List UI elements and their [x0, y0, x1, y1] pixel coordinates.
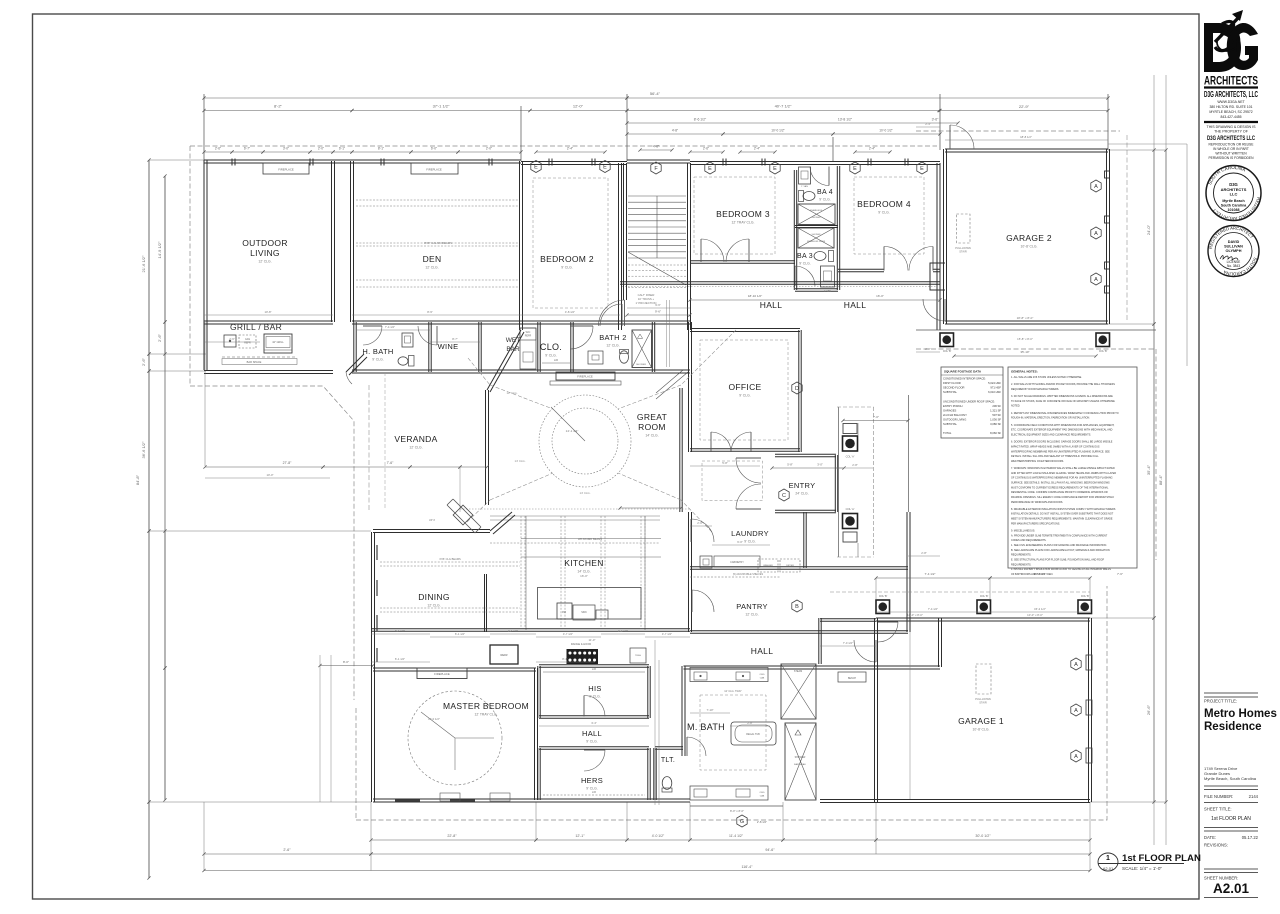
svg-text:ROUGH-IN, MATERIAL ERECTION, F: ROUGH-IN, MATERIAL ERECTION, FABRICATION…: [1011, 417, 1090, 420]
svg-text:D3G ARCHITECTS LLC: D3G ARCHITECTS LLC: [1207, 135, 1255, 142]
svg-text:A2.01: A2.01: [1213, 881, 1250, 896]
svg-text:REQUIRED BY DOOR MANUFACTURER: REQUIRED BY DOOR MANUFACTURERS.: [1011, 388, 1059, 391]
svg-text:SINK: SINK: [581, 611, 587, 614]
svg-text:4. REPORT ANY DIMENSIONAL DISC: 4. REPORT ANY DIMENSIONAL DISCREPANCIES …: [1011, 412, 1119, 415]
BA3 toilet: [814, 252, 826, 261]
kitchen island: [538, 588, 642, 620]
svg-text:6'-0": 6'-0": [431, 147, 437, 151]
svg-text:26'-6": 26'-6": [1146, 704, 1151, 715]
svg-text:5,024 HSF: 5,024 HSF: [988, 381, 1001, 385]
svg-text:COL 'B': COL 'B': [1099, 350, 1108, 353]
svg-text:9' CLG.: 9' CLG.: [819, 198, 830, 202]
roof overhang dashed outline upper left: [190, 131, 1156, 820]
svg-text:3,080 SF: 3,080 SF: [990, 422, 1001, 426]
svg-text:2'-0": 2'-0": [318, 147, 324, 151]
svg-text:37'-1 1/2": 37'-1 1/2": [433, 104, 450, 109]
garage1 porch dimension: [876, 577, 990, 579]
svg-text:UP 4': UP 4': [429, 518, 436, 522]
svg-text:4'-6": 4'-6": [653, 145, 659, 149]
svg-text:SHOWER: SHOWER: [812, 234, 822, 236]
svg-text:F. INSTALL R19 BATT INSULAT: F. INSTALL R19 BATT INSULATION FROM FLOO…: [1011, 568, 1111, 571]
garage1 attic stair: [976, 664, 991, 694]
his closet walls: [538, 666, 540, 718]
great room ceiling diagonals: [467, 330, 736, 532]
garage2 porch door: [923, 299, 945, 321]
garage2 A markers: [1091, 180, 1101, 192]
svg-text:SUBTOTAL: SUBTOTAL: [943, 422, 957, 426]
svg-text:PROJECT TITLE:: PROJECT TITLE:: [1204, 699, 1237, 704]
svg-text:D: D: [795, 386, 799, 392]
mbath vanities top: [690, 668, 768, 682]
master bedroom walls: [372, 668, 375, 802]
great room walls west: [486, 390, 489, 505]
garage1 porch edge: [830, 591, 1090, 593]
fireplace outdoor living: [263, 163, 309, 174]
svg-text:E: E: [534, 165, 538, 171]
svg-text:IN WHOLE OR IN PART: IN WHOLE OR IN PART: [1213, 147, 1249, 151]
svg-text:WEATHERSTRIPPING ON EXTERIOR D: WEATHERSTRIPPING ON EXTERIOR DOORS.: [1011, 460, 1064, 463]
svg-text:FRAMING OPENINGS. SILL ENERGY: FRAMING OPENINGS. SILL ENERGY CODE COMPL…: [1011, 496, 1114, 499]
office walls: [689, 327, 692, 452]
svg-text:A: A: [1074, 662, 1078, 668]
BA3 door: [795, 266, 815, 286]
svg-text:LAUNDRY: LAUNDRY: [731, 529, 769, 538]
svg-text:8'-7": 8'-7": [452, 337, 458, 341]
office double doors: [711, 432, 731, 452]
title block file number: [1204, 785, 1258, 787]
svg-text:E: E: [708, 166, 712, 172]
svg-text:FIREPLACE: FIREPLACE: [278, 168, 294, 172]
svg-text:ROOM: ROOM: [638, 422, 666, 432]
svg-text:2'-0": 2'-0": [697, 521, 703, 525]
svg-text:OFFICE: OFFICE: [729, 382, 762, 392]
svg-text:L/R: L/R: [592, 668, 596, 671]
svg-text:9' CLG.: 9' CLG.: [799, 262, 810, 266]
mbath door: [687, 737, 706, 756]
svg-text:12' CLG.: 12' CLG.: [507, 391, 518, 395]
svg-text:TRSH: TRSH: [635, 655, 641, 657]
svg-text:PULL-DOWN: PULL-DOWN: [955, 246, 971, 250]
svg-text:3'-0": 3'-0": [817, 463, 823, 467]
svg-text:E: E: [920, 166, 924, 172]
svg-text:ELECTRICAL EQUIPMENT SIZES AND: ELECTRICAL EQUIPMENT SIZES AND CLEARANCE…: [1011, 433, 1091, 436]
wine door: [418, 326, 437, 345]
mbath vanities bottom: [690, 786, 768, 800]
svg-text:G: G: [740, 819, 744, 825]
svg-text:18'-8" x 8'-0": 18'-8" x 8'-0": [1017, 316, 1034, 320]
garage1 porch columns: [876, 600, 890, 614]
entry porch columns: [843, 424, 857, 434]
svg-text:OF CONTINUOUS WATERPROOFING ME: OF CONTINUOUS WATERPROOFING MEMBRANE FOR…: [1011, 477, 1113, 480]
garage2 walls: [945, 149, 1108, 152]
BA4 door: [810, 167, 829, 186]
svg-text:REGAL TUB: REGAL TUB: [746, 733, 760, 736]
svg-text:FIRST FLOOR: FIRST FLOOR: [943, 381, 961, 385]
garage1 walls: [876, 618, 1090, 621]
svg-text:PERMISSION IS FORBIDDEN: PERMISSION IS FORBIDDEN: [1208, 156, 1254, 160]
svg-text:E: E: [853, 166, 857, 172]
hall lower walls: [820, 619, 876, 622]
kitchen ceiling beam grid: [490, 516, 660, 628]
master fireplace: [417, 668, 467, 679]
svg-text:HALL: HALL: [582, 729, 602, 738]
svg-text:REQUIREMENTS.: REQUIREMENTS.: [1011, 554, 1032, 557]
svg-text:BATH 2: BATH 2: [599, 333, 627, 342]
svg-text:ENTRY: ENTRY: [789, 481, 816, 490]
svg-text:ENTRY PORCH: ENTRY PORCH: [943, 404, 963, 408]
svg-text:BAR: BAR: [506, 346, 520, 353]
svg-text:1' VAN: 1' VAN: [801, 185, 808, 188]
svg-text:A. PROVIDE UNDER SLAB TERMI: A. PROVIDE UNDER SLAB TERMITE TREATMENT …: [1011, 534, 1108, 537]
fireplace den: [411, 163, 458, 174]
svg-text:LIVING: LIVING: [250, 248, 280, 258]
svg-text:REPRODUCTION OR REUSE: REPRODUCTION OR REUSE: [1209, 143, 1255, 147]
svg-text:COL 'A': COL 'A': [846, 455, 855, 459]
svg-text:TOTAL: TOTAL: [943, 431, 952, 435]
foyer dashed ceiling: [702, 461, 763, 501]
svg-text:2144: 2144: [1249, 794, 1259, 799]
svg-text:ORG: ORG: [760, 674, 765, 676]
svg-text:10'-0": 10'-0": [266, 473, 273, 477]
svg-text:94'-6": 94'-6": [765, 848, 775, 852]
svg-text:5. COORDINATE FIELD CONDITIONS: 5. COORDINATE FIELD CONDITIONS WITH DIME…: [1011, 424, 1115, 427]
svg-text:PERFORMANCE OF WINDOWS AND DOO: PERFORMANCE OF WINDOWS AND DOORS.: [1011, 501, 1063, 504]
svg-text:WINE: WINE: [438, 342, 459, 351]
svg-text:4'-0 1/2": 4'-0 1/2": [652, 834, 665, 838]
registration stamp architect seal: [1208, 226, 1259, 277]
svg-text:SULLIVAN: SULLIVAN: [1224, 245, 1243, 249]
svg-text:21'-6 1/2": 21'-6 1/2": [141, 255, 146, 272]
svg-text:8'-0" x 8'-0": 8'-0" x 8'-0": [730, 809, 744, 813]
bedroom4 dashed clg: [854, 177, 924, 254]
svg-text:TO FACE OF STUDS, FACE OF CONC: TO FACE OF STUDS, FACE OF CONCRETE OR FA…: [1011, 400, 1115, 403]
svg-text:BA 3: BA 3: [797, 253, 813, 260]
svg-text:9' CLG.: 9' CLG.: [586, 787, 597, 791]
svg-text:12'-0": 12'-0": [573, 104, 584, 109]
svg-text:SECOND FLOOR: SECOND FLOOR: [943, 386, 965, 390]
bath2 corridor under-stair: [656, 370, 688, 399]
bath2 shower: [632, 330, 652, 368]
svg-text:RANGE & HOOD: RANGE & HOOD: [571, 642, 591, 646]
svg-text:GARAGES: GARAGES: [943, 408, 956, 412]
svg-text:18'-10 1/2": 18'-10 1/2": [748, 294, 762, 298]
svg-text:1' PROJECTION: 1' PROJECTION: [636, 301, 657, 305]
top dimension lines: [204, 97, 627, 99]
svg-text:14' CLG.: 14' CLG.: [515, 459, 526, 463]
top wall window jambs: [232, 159, 908, 166]
svg-text:UNCONDITIONED UNDER ROOF SPACE: UNCONDITIONED UNDER ROOF SPACE:: [943, 399, 995, 403]
svg-text:FIREPLACE: FIREPLACE: [426, 168, 442, 172]
entry porch edge lines: [838, 407, 840, 557]
svg-text:14'-9 1/2": 14'-9 1/2": [157, 241, 162, 258]
svg-text:2'-8": 2'-8": [852, 463, 858, 467]
svg-text:9' CLG.: 9' CLG.: [561, 266, 572, 270]
svg-text:COL 'B': COL 'B': [879, 595, 888, 598]
BA4 toilet: [803, 192, 815, 201]
svg-text:10'-0 1/2": 10'-0 1/2": [771, 129, 784, 133]
svg-text:FILE NUMBER:: FILE NUMBER:: [1204, 794, 1233, 799]
svg-text:4'-8": 4'-8": [672, 129, 678, 133]
svg-text:B: B: [795, 604, 799, 610]
svg-text:DINING: DINING: [418, 592, 450, 602]
small dims above top wall: [204, 151, 232, 153]
svg-text:12' CLG.: 12' CLG.: [745, 613, 758, 617]
svg-text:REVISIONS:: REVISIONS:: [1204, 843, 1228, 848]
svg-text:15'-2 1/2": 15'-2 1/2": [1034, 607, 1046, 611]
svg-text:PER MANUFACTURERS SPECIFICATIO: PER MANUFACTURERS SPECIFICATIONS.: [1011, 522, 1060, 525]
svg-text:2'-0": 2'-0": [925, 347, 931, 351]
bedroom3 dashed clg: [694, 177, 775, 254]
svg-text:STAIR: STAIR: [979, 701, 987, 705]
svg-text:SHOWER: SHOWER: [636, 364, 646, 366]
garage2 left jog: [930, 263, 945, 290]
svg-text:8'-4": 8'-4": [562, 657, 568, 661]
svg-text:2'-4": 2'-4": [925, 122, 931, 126]
svg-text:7'-4 1/2": 7'-4 1/2": [385, 325, 395, 329]
svg-text:A: A: [1074, 754, 1078, 760]
svg-text:12' CLG. TRAY: 12' CLG. TRAY: [724, 689, 742, 693]
svg-text:FRAMELESS GLASS: FRAMELESS GLASS: [807, 240, 826, 243]
svg-text:COL 'B': COL 'B': [1081, 595, 1090, 598]
svg-text:7'-10": 7'-10": [706, 708, 713, 712]
svg-text:DEN: DEN: [423, 254, 442, 264]
svg-text:4'-4 1/2": 4'-4 1/2": [618, 629, 628, 633]
svg-text:GENERAL NOTES:: GENERAL NOTES:: [1011, 370, 1038, 374]
svg-text:11'-0": 11'-0": [589, 638, 596, 642]
great room east wall: [680, 388, 682, 512]
great room ceiling circles: [539, 395, 631, 487]
stair walls: [624, 163, 627, 300]
left dimension lines: [148, 160, 150, 878]
svg-text:9. MISCELLANEOUS:: 9. MISCELLANEOUS:: [1011, 530, 1035, 533]
mbath walls: [682, 666, 685, 756]
svg-text:ORG: ORG: [760, 792, 765, 794]
svg-text:7'-4 1/2": 7'-4 1/2": [928, 607, 938, 611]
svg-text:DAVID: DAVID: [1228, 240, 1240, 244]
svg-text:3'X6' CLG BEAMS: 3'X6' CLG BEAMS: [439, 557, 461, 561]
svg-text:9' CLG.: 9' CLG.: [586, 740, 597, 744]
hall bench: [838, 672, 866, 682]
svg-text:A: A: [1094, 277, 1098, 283]
mbath porch: [690, 805, 783, 807]
svg-text:5'-8": 5'-8": [722, 461, 728, 465]
svg-text:THIS DRAWING & DESIGN IS: THIS DRAWING & DESIGN IS: [1207, 125, 1257, 129]
svg-text:2'-6": 2'-6": [283, 848, 291, 852]
svg-text:REFR: REFR: [525, 335, 532, 338]
svg-text:9'-6": 9'-6": [655, 303, 661, 307]
veranda dotted floor edge: [460, 508, 690, 510]
entry porch dimensions: [843, 420, 908, 422]
svg-text:STEAM: STEAM: [794, 670, 802, 673]
refrigerator: [490, 645, 518, 664]
svg-text:12' TRAY CLG.: 12' TRAY CLG.: [732, 221, 755, 225]
svg-text:HALL: HALL: [844, 300, 866, 310]
svg-text:2'-6": 2'-6": [703, 147, 709, 151]
entry walls: [775, 454, 836, 456]
svg-text:DATE:: DATE:: [1204, 835, 1216, 840]
svg-text:E. SEE STRUCTURAL PLANS FOR: E. SEE STRUCTURAL PLANS FOR FLOOR SLAB, …: [1011, 558, 1105, 561]
svg-text:3. DO NOT SCALE DRAWINGS. WRI: 3. DO NOT SCALE DRAWINGS. WRITTEN DIMENS…: [1011, 395, 1113, 398]
svg-text:11'-4 1/2": 11'-4 1/2": [729, 834, 744, 838]
svg-text:WASHER: WASHER: [763, 564, 773, 567]
svg-text:ETC. COORDINATE EXTERIOR EQUIP: ETC. COORDINATE EXTERIOR EQUIPMENT PAD D…: [1011, 429, 1113, 432]
garage1 A markers: [1071, 658, 1081, 670]
svg-text:Metro Homes: Metro Homes: [1204, 708, 1277, 720]
svg-text:D3G ARCHITECTS, LLC: D3G ARCHITECTS, LLC: [1204, 90, 1258, 99]
svg-text:BEDROOM 4: BEDROOM 4: [857, 199, 911, 209]
svg-text:8. DRAINABLE EXTERIOR INSULATI: 8. DRAINABLE EXTERIOR INSULATION FINISH …: [1011, 508, 1116, 511]
garage2 porch columns: [940, 333, 954, 347]
bottom dimension lines: [371, 839, 536, 841]
svg-text:1st FLOOR PLAN: 1st FLOOR PLAN: [1211, 816, 1251, 822]
svg-text:14' CLG.: 14' CLG.: [645, 434, 658, 438]
bath2 toilet: [620, 351, 629, 363]
veranda column: [447, 499, 481, 533]
h bath toilet: [398, 357, 408, 365]
svg-text:BAR SPACE: BAR SPACE: [247, 360, 262, 364]
svg-text:40'-7 1/2": 40'-7 1/2": [775, 104, 792, 109]
svg-text:THE PROPERTY OF: THE PROPERTY OF: [1214, 130, 1249, 134]
svg-text:7'-6": 7'-6": [1117, 572, 1123, 576]
mbath dashed ceiling: [700, 695, 766, 770]
svg-text:10'-8": 10'-8": [264, 310, 271, 314]
svg-text:BA 4: BA 4: [817, 189, 833, 196]
svg-text:H. BATH: H. BATH: [362, 347, 393, 356]
svg-text:INSTALLATION DETAILS. DO NOT: INSTALLATION DETAILS. DO NOT INSTALL SYS…: [1011, 513, 1114, 516]
BA3 sink: [821, 266, 835, 287]
svg-text:14'-0 1/2": 14'-0 1/2": [428, 717, 440, 721]
svg-text:BENCH: BENCH: [848, 678, 856, 680]
right exterior wall upper: [937, 163, 940, 330]
svg-text:BEDROOM 3: BEDROOM 3: [716, 209, 770, 219]
svg-text:8'-0": 8'-0": [343, 660, 349, 664]
svg-text:LLC: LLC: [1230, 192, 1238, 197]
svg-text:6'-1 1/2": 6'-1 1/2": [395, 657, 405, 661]
svg-text:South Carolina: South Carolina: [1221, 204, 1248, 208]
scattered small dimension texture: [204, 127, 1108, 726]
svg-text:1,321 SF: 1,321 SF: [990, 408, 1001, 412]
svg-text:12'-1": 12'-1": [575, 834, 585, 838]
hall dotted band: [622, 286, 937, 288]
svg-text:CABINETRY: CABINETRY: [730, 561, 744, 564]
svg-text:L/R: L/R: [554, 358, 558, 362]
svg-text:3'X8" CALN'D BEAMS: 3'X8" CALN'D BEAMS: [424, 241, 452, 245]
dining north wall: [373, 530, 490, 533]
registration stamp South Carolina firm: [1206, 166, 1261, 221]
svg-text:8'-2": 8'-2": [274, 104, 283, 109]
garage entry door: [878, 622, 898, 642]
svg-text:OUTDOOR LIVING: OUTDOOR LIVING: [943, 417, 966, 421]
middle band walls rooms: [204, 321, 333, 324]
dining fireplace dim lines: [319, 655, 321, 802]
svg-text:WATERPROOFING MEMBRANE PER AN: WATERPROOFING MEMBRANE PER AN UNINTERRUP…: [1011, 450, 1110, 453]
BA4 sink: [799, 167, 811, 184]
den ceiling beams: [356, 200, 519, 287]
svg-text:35'-4": 35'-4": [1146, 464, 1151, 475]
svg-text:10'-8' CLG.: 10'-8' CLG.: [973, 728, 990, 732]
svg-text:SCALE: 1/4" = 1'-0": SCALE: 1/4" = 1'-0": [1122, 866, 1162, 871]
dining ceiling beams: [380, 561, 520, 563]
svg-text:2'-6": 2'-6": [157, 333, 162, 342]
mbath tub: [731, 722, 776, 745]
office dashed ceiling: [700, 340, 788, 440]
svg-text:101088: 101088: [1228, 208, 1240, 212]
svg-text:MEET SYSTEM MANUFACTURERS REQU: MEET SYSTEM MANUFACTURERS REQUIREMENTS. …: [1011, 518, 1113, 521]
svg-text:VERANDA: VERANDA: [394, 434, 437, 444]
svg-text:5'-8": 5'-8": [787, 463, 793, 467]
hall bedroom wing dimension: [627, 314, 690, 316]
his hers doors: [584, 696, 605, 717]
svg-text:2'-6": 2'-6": [229, 337, 235, 341]
svg-text:42" GRILL: 42" GRILL: [272, 341, 284, 344]
svg-text:M. BATH: M. BATH: [687, 722, 725, 732]
svg-text:FRAMELESS: FRAMELESS: [810, 209, 823, 212]
right dimension lines: [1153, 75, 1155, 845]
svg-text:AND FITTED WITH LOW-E INSULATE: AND FITTED WITH LOW-E INSULATED GLAZING.…: [1011, 472, 1116, 475]
svg-text:RESIDENTIAL CODE. CONFIRM COM: RESIDENTIAL CODE. CONFIRM COMPLIANCE PRI…: [1011, 491, 1108, 494]
svg-text:4'-1 1/2": 4'-1 1/2": [508, 629, 518, 633]
ba3 shower: [798, 228, 834, 248]
svg-text:4'-8 1/2": 4'-8 1/2": [565, 310, 575, 314]
svg-text:18'-8 1/2": 18'-8 1/2": [1020, 135, 1032, 139]
laundry cabinetry: [700, 556, 712, 568]
svg-text:SURFACE. SEE DETAILS. INSTALL: SURFACE. SEE DETAILS. INSTALL SILL PAN A…: [1011, 482, 1110, 485]
water closet walls: [819, 618, 821, 664]
svg-text:WET: WET: [506, 337, 520, 344]
svg-text:REQUIREMENTS.: REQUIREMENTS.: [1011, 563, 1032, 566]
svg-text:56'-4": 56'-4": [650, 91, 661, 96]
svg-text:FIREPLACE: FIREPLACE: [434, 672, 450, 676]
svg-text:27'-8": 27'-8": [283, 461, 292, 465]
bedroom3 double doors: [701, 239, 724, 262]
svg-text:CAB: CAB: [760, 677, 765, 680]
svg-text:A: A: [1074, 708, 1078, 714]
svg-text:206 SF: 206 SF: [992, 404, 1001, 408]
h bath door: [363, 326, 382, 345]
svg-text:7'-4 1/2": 7'-4 1/2": [925, 572, 936, 576]
pantry door: [692, 590, 714, 612]
mud hall door: [854, 640, 876, 662]
svg-text:116'-4": 116'-4": [742, 865, 754, 869]
svg-text:RAIN HEAD: RAIN HEAD: [794, 763, 806, 766]
title block logo D3G: [1204, 10, 1258, 72]
svg-text:14'-1 3/4": 14'-1 3/4": [566, 429, 579, 433]
svg-text:PULL-DOWN: PULL-DOWN: [975, 697, 991, 701]
dining kitchen divider wall: [485, 574, 487, 632]
svg-text:8'-9": 8'-9": [427, 310, 433, 314]
bedroom2 walls: [619, 163, 622, 330]
svg-text:ARCHITECTS: ARCHITECTS: [1204, 76, 1258, 88]
svg-text:CODES AND REQUIREMENTS.: CODES AND REQUIREMENTS.: [1011, 539, 1047, 542]
svg-text:7. WINDOWS: WINDOWS IN EXTERI: 7. WINDOWS: WINDOWS IN EXTERIOR WALLS SH…: [1011, 467, 1115, 470]
svg-text:PANTRY: PANTRY: [736, 602, 768, 611]
svg-text:WITHOUT WRITTEN: WITHOUT WRITTEN: [1215, 152, 1247, 156]
top exterior wall: [204, 160, 521, 163]
svg-text:TLT.: TLT.: [661, 757, 675, 764]
svg-text:30'-0 1/2": 30'-0 1/2": [975, 834, 991, 838]
outdoor living walls: [204, 160, 207, 370]
mbath dim stack: [654, 640, 656, 805]
veranda step dashed lines: [368, 385, 370, 510]
svg-text:9'-6": 9'-6": [655, 310, 661, 314]
svg-text:OUTDOOR: OUTDOOR: [242, 238, 288, 248]
svg-text:HALL: HALL: [760, 300, 782, 310]
svg-text:10'-8' CLG.: 10'-8' CLG.: [1021, 245, 1038, 249]
svg-text:COL 'A': COL 'A': [846, 507, 855, 511]
svg-text:35'-10": 35'-10": [1020, 350, 1029, 354]
svg-text:8,060 SF: 8,060 SF: [990, 431, 1001, 435]
entry double doors: [736, 458, 761, 483]
